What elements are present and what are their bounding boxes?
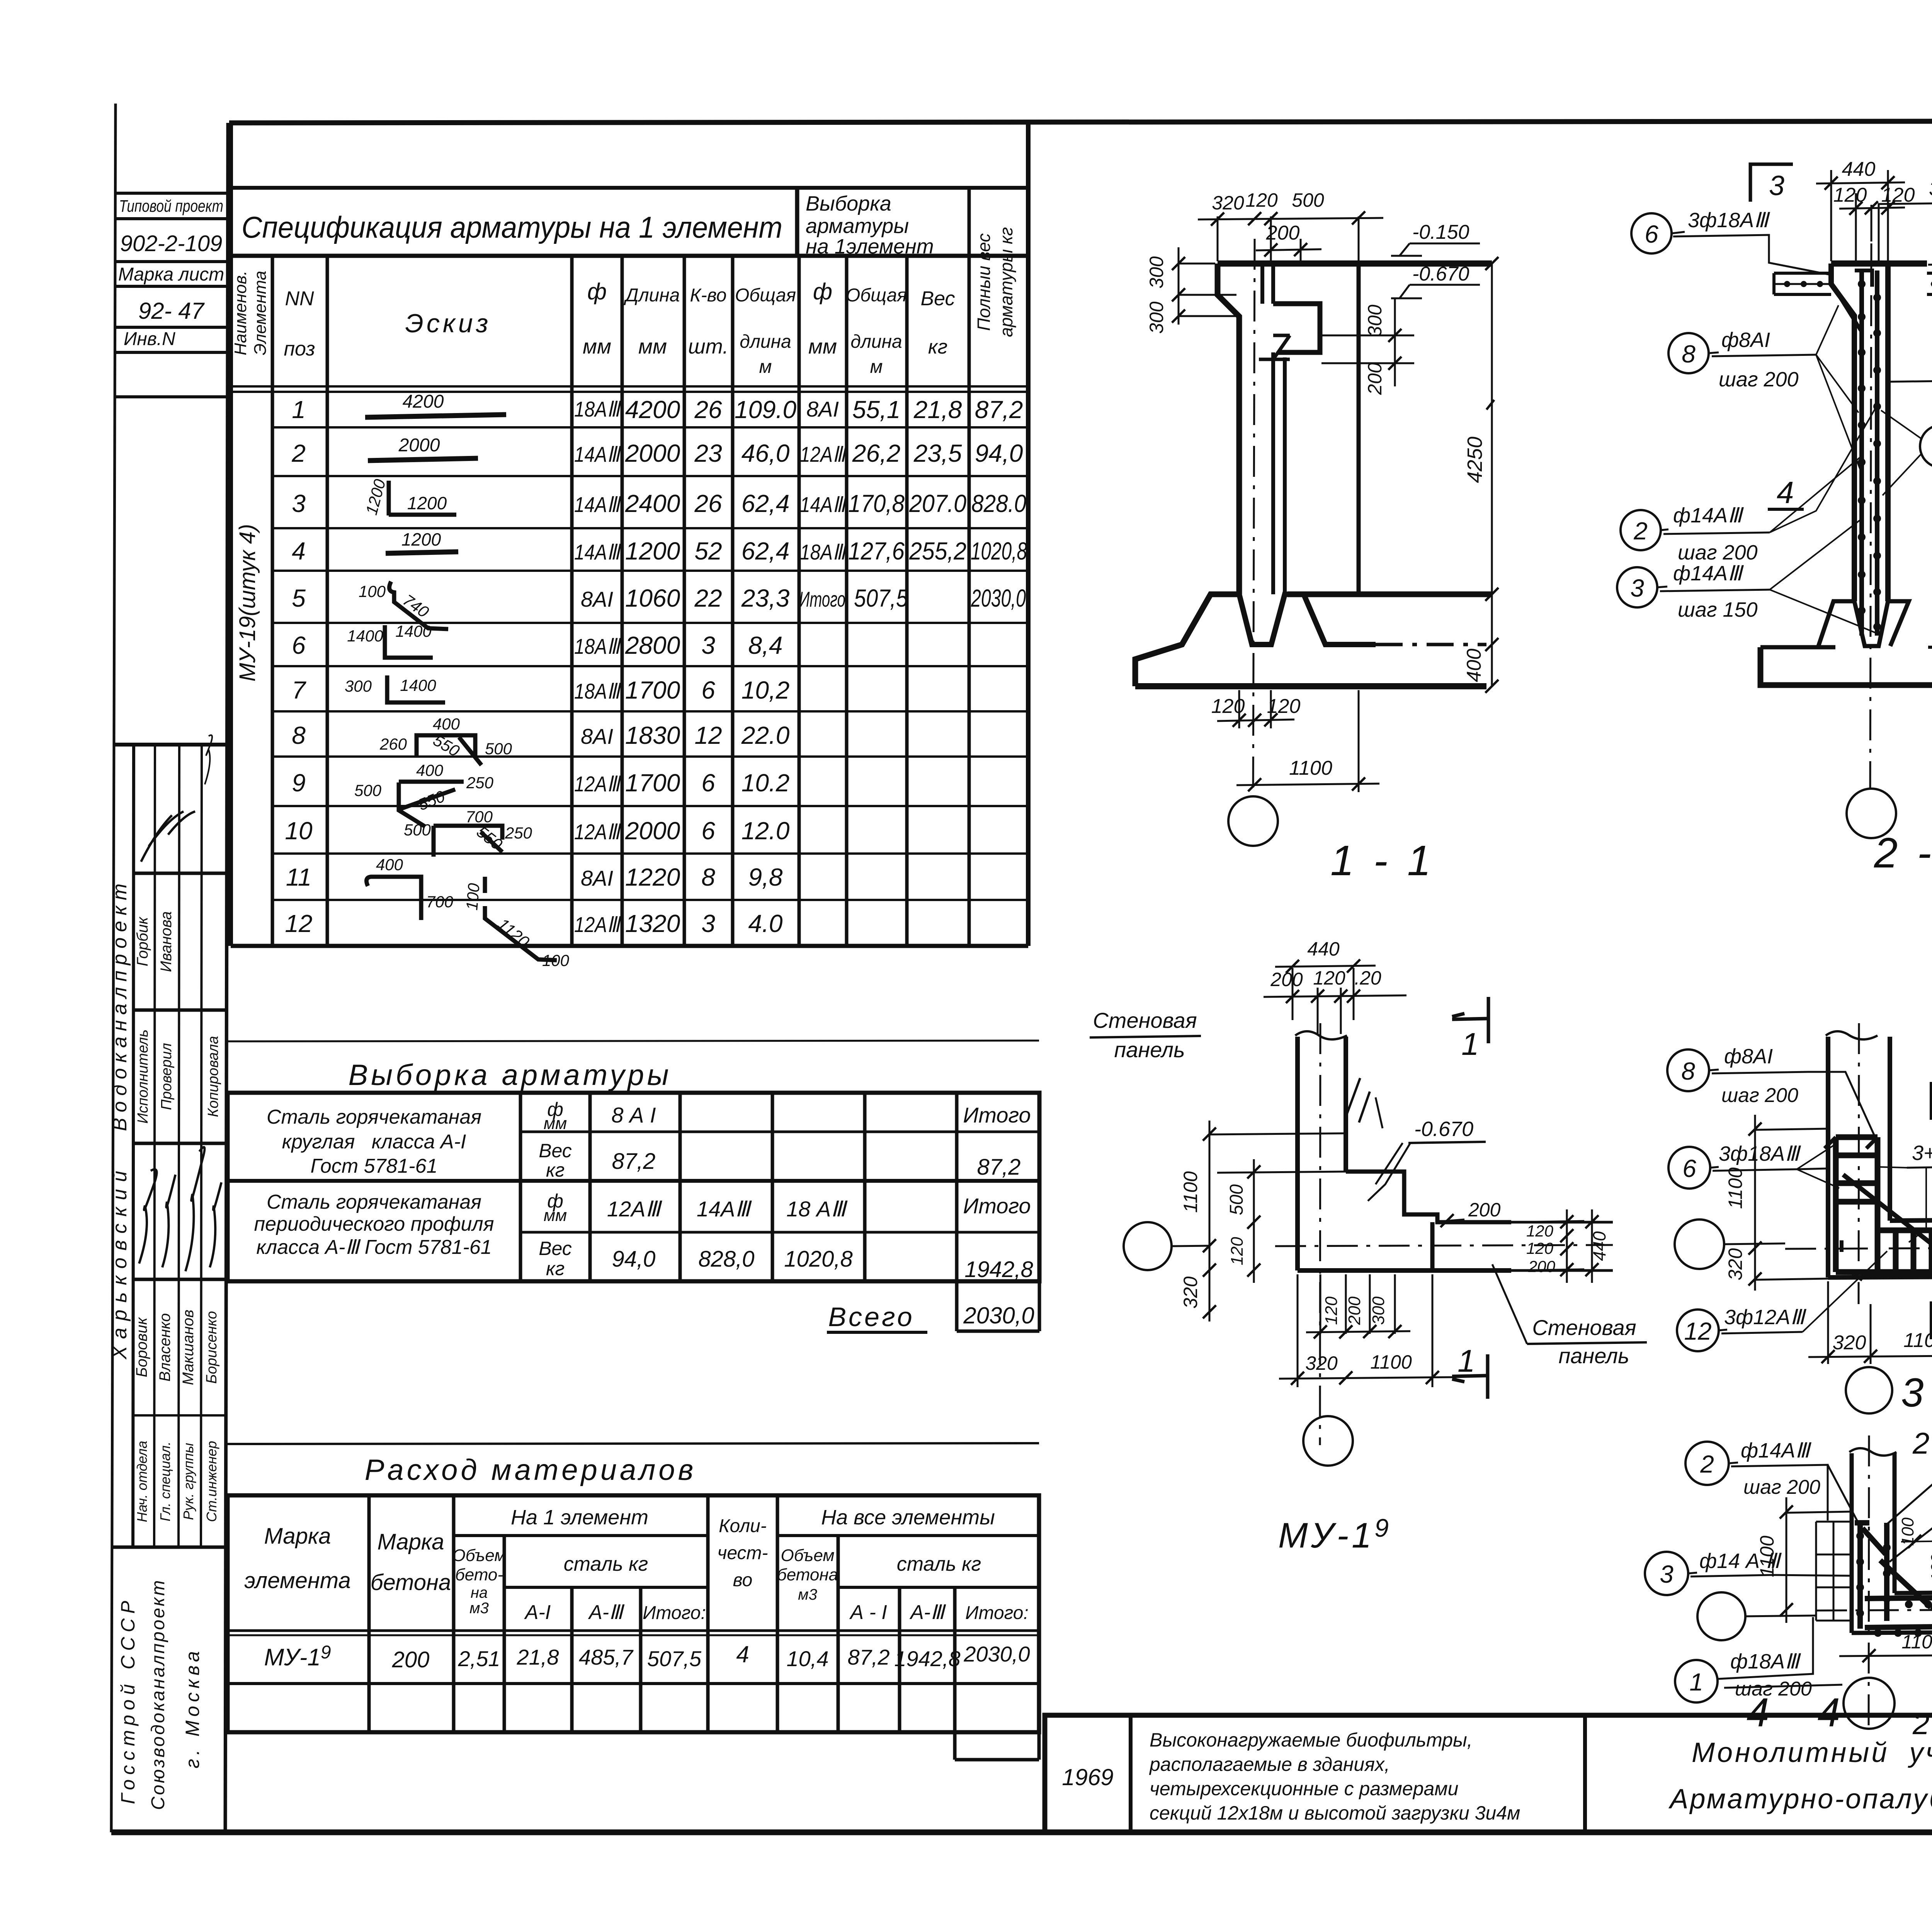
- svg-text:500: 500: [1226, 1184, 1247, 1215]
- svg-text:18АⅢ: 18АⅢ: [800, 540, 847, 564]
- svg-text:94,0: 94,0: [612, 1247, 656, 1272]
- svg-text:Союзводоканалпроект: Союзводоканалпроект: [148, 1579, 168, 1810]
- svg-text:.20: .20: [1354, 967, 1381, 989]
- svg-text:11: 11: [286, 863, 311, 891]
- svg-text:320: 320: [1725, 1248, 1746, 1281]
- svg-text:бето-: бето-: [455, 1565, 503, 1584]
- svg-text:6: 6: [701, 676, 715, 704]
- svg-text:Итого:: Итого:: [643, 1603, 706, 1623]
- svg-text:3ф18АⅢ: 3ф18АⅢ: [1719, 1142, 1801, 1165]
- svg-text:К-во: К-во: [690, 285, 727, 306]
- svg-text:500: 500: [354, 781, 382, 799]
- svg-text:8: 8: [292, 721, 306, 749]
- svg-text:14АⅢ: 14АⅢ: [574, 492, 622, 517]
- svg-text:бетона: бетона: [777, 1565, 838, 1584]
- callout 8: [1668, 333, 1709, 373]
- svg-text:3: 3: [292, 490, 306, 517]
- MU-19 bottom dims: [1279, 1274, 1457, 1387]
- callout 2: [1621, 510, 1661, 550]
- svg-text:Типовой проект: Типовой проект: [119, 197, 223, 216]
- svg-text:Объем: Объем: [452, 1546, 506, 1565]
- svg-text:6: 6: [1682, 1155, 1696, 1182]
- svg-text:мм: мм: [544, 1206, 567, 1225]
- svg-text:120: 120: [1245, 189, 1278, 211]
- section 3-3 outline: [1785, 1023, 1932, 1304]
- sketch column figures: [365, 415, 557, 960]
- svg-text:8АI: 8АI: [806, 397, 839, 421]
- svg-text:12АⅢ: 12АⅢ: [800, 442, 847, 466]
- 2-2 rebar bars: [1833, 270, 1877, 636]
- main frame top: [229, 121, 1932, 123]
- svg-text:6: 6: [701, 817, 715, 845]
- svg-text:902-2-109: 902-2-109: [120, 231, 222, 256]
- svg-text:Харьковский: Харьковский: [109, 1164, 131, 1360]
- svg-text:3: 3: [1660, 1560, 1673, 1588]
- svg-text:Монолитный участок МУ-19: Монолитный участок МУ-19: [1692, 1736, 1932, 1768]
- callout 6: [1668, 1147, 1710, 1189]
- MU-19 plan outline: [1275, 1023, 1613, 1445]
- svg-text:12: 12: [694, 721, 722, 749]
- svg-text:100: 100: [359, 582, 386, 600]
- svg-text:700: 700: [466, 808, 493, 826]
- svg-text:кг: кг: [546, 1159, 565, 1181]
- svg-text:Гост 5781-61: Гост 5781-61: [311, 1155, 438, 1177]
- svg-text:Водоканалпроект: Водоканалпроект: [109, 878, 131, 1131]
- svg-text:на 1элемент: на 1элемент: [806, 235, 934, 258]
- svg-text:120: 120: [1313, 967, 1345, 989]
- svg-text:-0.150: -0.150: [1412, 221, 1469, 243]
- svg-text:207.0: 207.0: [909, 490, 966, 517]
- MU-19 left dims: [1209, 1121, 1346, 1321]
- svg-text:м3: м3: [798, 1586, 817, 1603]
- 4-4 axis circle / label: [1844, 1678, 1895, 1729]
- svg-text:периодического профиля: периодического профиля: [254, 1213, 494, 1235]
- svg-text:14АⅢ: 14АⅢ: [574, 540, 622, 564]
- svg-text:62,4: 62,4: [742, 537, 790, 565]
- svg-text:длина: длина: [740, 332, 791, 352]
- svg-text:23: 23: [694, 439, 722, 467]
- svg-text:во: во: [733, 1570, 753, 1590]
- svg-text:поз: поз: [284, 338, 315, 360]
- svg-text:3ф12АⅢ: 3ф12АⅢ: [1724, 1306, 1806, 1329]
- svg-text:120: 120: [1322, 1296, 1341, 1325]
- svg-text:Общая: Общая: [735, 285, 796, 306]
- wall stem inner verticals: [1260, 264, 1264, 304]
- svg-text:Рук. группы: Рук. группы: [180, 1443, 196, 1520]
- svg-text:арматуры: арматуры: [806, 214, 909, 238]
- svg-text:г. Москва: г. Москва: [182, 1647, 203, 1768]
- svg-text:секций 12х18м и высотой загруз: секций 12х18м и высотой загрузки 3и4м: [1150, 1802, 1520, 1824]
- svg-text:шаг 200: шаг 200: [1721, 1084, 1798, 1107]
- svg-text:Наименов.: Наименов.: [231, 270, 250, 355]
- svg-text:200: 200: [1266, 222, 1300, 244]
- svg-text:-0.670: -0.670: [1412, 263, 1469, 285]
- svg-text:9: 9: [292, 769, 306, 797]
- svg-text:8,4: 8,4: [748, 631, 783, 659]
- svg-text:10,4: 10,4: [787, 1646, 829, 1671]
- svg-text:шаг 150: шаг 150: [1678, 598, 1758, 621]
- svg-text:1100: 1100: [1370, 1351, 1412, 1373]
- svg-text:1400: 1400: [347, 627, 383, 645]
- svg-text:Итого:: Итого:: [965, 1603, 1029, 1623]
- svg-text:Выборка арматуры: Выборка арматуры: [348, 1059, 672, 1092]
- svg-text:120: 120: [1211, 695, 1245, 718]
- svg-text:828.0: 828.0: [971, 490, 1026, 517]
- svg-text:255,2: 255,2: [909, 537, 966, 565]
- svg-text:14АⅢ: 14АⅢ: [574, 442, 622, 466]
- svg-text:Власенко: Власенко: [156, 1313, 173, 1382]
- svg-text:Выборка: Выборка: [806, 192, 891, 215]
- svg-text:2030,0: 2030,0: [971, 584, 1026, 612]
- svg-text:200: 200: [392, 1647, 430, 1672]
- svg-text:1942,8: 1942,8: [894, 1646, 960, 1671]
- svg-text:440: 440: [1589, 1231, 1609, 1261]
- svg-text:2 - 2: 2 - 2: [1874, 829, 1932, 877]
- spec table data: [285, 396, 1027, 937]
- svg-text:4: 4: [1777, 475, 1794, 510]
- MU-19 top dims: [1264, 966, 1406, 1034]
- svg-text:Горбик: Горбик: [134, 916, 151, 966]
- svg-text:располагаемые в зданиях,: располагаемые в зданиях,: [1149, 1753, 1390, 1775]
- svg-text:4200: 4200: [625, 396, 680, 423]
- 1-1 bottom dims: [1217, 690, 1379, 792]
- svg-text:250: 250: [466, 774, 494, 792]
- MU-19 bottom axis circle: [1303, 1416, 1353, 1466]
- svg-text:Вес: Вес: [539, 1238, 572, 1259]
- small 100 dims: [1901, 1519, 1932, 1575]
- svg-text:1220: 1220: [625, 863, 680, 891]
- svg-text:1: 1: [1689, 1668, 1703, 1696]
- svg-text:2: 2: [1633, 517, 1648, 545]
- svg-text:12АⅢ: 12АⅢ: [574, 912, 622, 937]
- svg-text:4.0: 4.0: [748, 910, 783, 937]
- svg-text:1100: 1100: [1180, 1171, 1201, 1213]
- svg-text:Копировала: Копировала: [205, 1036, 221, 1117]
- svg-text:мм: мм: [583, 335, 611, 358]
- svg-text:500: 500: [485, 740, 512, 758]
- svg-text:14АⅢ: 14АⅢ: [800, 492, 847, 517]
- svg-text:круглая класса А-I: круглая класса А-I: [282, 1131, 466, 1153]
- svg-text:200: 200: [1364, 362, 1386, 395]
- svg-text:62,4: 62,4: [742, 490, 790, 517]
- svg-text:Гл. специал.: Гл. специал.: [157, 1442, 173, 1522]
- svg-text:507,5: 507,5: [854, 584, 908, 612]
- svg-text:1700: 1700: [625, 676, 680, 704]
- svg-text:Итого: Итого: [799, 587, 845, 611]
- svg-text:300: 300: [1364, 304, 1386, 337]
- svg-text:ф14АⅢ: ф14АⅢ: [1673, 562, 1744, 585]
- svg-text:9,8: 9,8: [748, 863, 783, 891]
- svg-text:2400: 2400: [625, 490, 680, 517]
- svg-text:Итого: Итого: [963, 1194, 1031, 1218]
- svg-text:12АⅢ: 12АⅢ: [607, 1197, 663, 1221]
- svg-text:мм: мм: [638, 335, 667, 358]
- svg-text:300: 300: [345, 677, 372, 695]
- svg-text:ф14АⅢ: ф14АⅢ: [1741, 1439, 1811, 1462]
- svg-text:1969: 1969: [1062, 1764, 1113, 1790]
- svg-text:4 - 4: 4 - 4: [1747, 1690, 1843, 1735]
- svg-text:120: 120: [1833, 184, 1867, 206]
- svg-text:Боровик: Боровик: [133, 1317, 150, 1378]
- svg-text:100: 100: [542, 951, 570, 969]
- svg-text:1100: 1100: [1289, 757, 1332, 779]
- svg-text:1100: 1100: [1903, 1329, 1932, 1352]
- svg-text:1100: 1100: [1725, 1167, 1746, 1209]
- svg-text:18 АⅢ: 18 АⅢ: [786, 1197, 848, 1221]
- svg-text:87,2: 87,2: [975, 396, 1023, 423]
- svg-text:23,5: 23,5: [913, 439, 962, 467]
- 2-2 top dims 440/120/120: [1816, 170, 1905, 261]
- callout 6: [1631, 213, 1672, 253]
- svg-text:8: 8: [1682, 340, 1696, 368]
- svg-text:Полныи вес: Полныи вес: [974, 233, 994, 331]
- 3-3 left dims: [1755, 1115, 1828, 1291]
- stray pencil squiggle: [205, 735, 212, 785]
- floor level line: [1287, 592, 1492, 597]
- svg-text:300: 300: [1146, 301, 1167, 334]
- svg-text:8: 8: [701, 863, 715, 891]
- svg-text:8: 8: [1681, 1057, 1695, 1085]
- svg-text:Элемента: Элемента: [251, 271, 270, 355]
- blank circle: [1697, 1592, 1745, 1640]
- svg-text:87,2: 87,2: [612, 1149, 656, 1174]
- svg-text:сталь кг: сталь кг: [897, 1553, 981, 1575]
- svg-text:14АⅢ: 14АⅢ: [697, 1197, 752, 1221]
- svg-text:Ст.инженер: Ст.инженер: [204, 1441, 219, 1522]
- svg-text:Объем: Объем: [781, 1546, 835, 1565]
- svg-text:2000: 2000: [625, 439, 680, 467]
- svg-text:440: 440: [1307, 938, 1340, 960]
- 3-3 axis circle / label: [1846, 1367, 1892, 1413]
- svg-text:400: 400: [416, 761, 444, 779]
- svg-text:26,2: 26,2: [852, 439, 901, 467]
- svg-text:6: 6: [292, 631, 306, 659]
- callout 12: [1677, 1310, 1719, 1351]
- svg-text:Марка лист: Марка лист: [118, 264, 224, 285]
- svg-text:четырехсекционные с размерами: четырехсекционные с размерами: [1150, 1778, 1458, 1799]
- callout 1 bottom-left: [1675, 1660, 1718, 1702]
- svg-text:1942,8: 1942,8: [964, 1257, 1033, 1282]
- section 2-2 wall outline: [1760, 243, 1932, 788]
- svg-text:22: 22: [694, 584, 722, 612]
- 1-1 elevation marks: [1391, 243, 1480, 298]
- svg-text:Вес: Вес: [920, 287, 955, 310]
- svg-text:Расход материалов: Расход материалов: [365, 1454, 697, 1486]
- svg-text:10.2: 10.2: [742, 769, 790, 797]
- svg-text:46,0: 46,0: [742, 439, 790, 467]
- svg-text:300: 300: [1369, 1296, 1388, 1325]
- svg-text:Спецификация арматуры на 1 эле: Спецификация арматуры на 1 элемент: [241, 210, 782, 244]
- svg-text:300: 300: [1146, 256, 1167, 289]
- svg-text:400: 400: [433, 715, 460, 733]
- svg-text:87,2: 87,2: [977, 1155, 1021, 1180]
- svg-text:21,8: 21,8: [913, 396, 962, 423]
- svg-text:1: 1: [1461, 1027, 1479, 1062]
- svg-text:1830: 1830: [625, 721, 680, 749]
- section 4-4 outline: [1816, 1435, 1932, 1731]
- svg-text:Длина: Длина: [624, 285, 680, 306]
- svg-text:А-I: А-I: [524, 1601, 551, 1624]
- svg-text:2,51: 2,51: [458, 1646, 500, 1671]
- svg-text:3: 3: [1769, 170, 1784, 201]
- svg-text:3ф18АⅢ: 3ф18АⅢ: [1688, 209, 1770, 232]
- 3-3 cut marks 2: [1930, 1082, 1932, 1120]
- svg-text:Стеновая: Стеновая: [1532, 1315, 1636, 1340]
- svg-text:200: 200: [1345, 1296, 1364, 1325]
- callout 3: [1617, 567, 1657, 607]
- svg-text:100: 100: [1898, 1517, 1917, 1546]
- 4-4 left dim 1100: [1786, 1497, 1852, 1623]
- svg-text:Арматурно-опалубочный чертёж: Арматурно-опалубочный чертёж: [1668, 1784, 1932, 1815]
- svg-text:485,7: 485,7: [579, 1645, 634, 1669]
- svg-text:шт.: шт.: [688, 335, 728, 358]
- svg-text:кг: кг: [546, 1258, 565, 1279]
- adjacent panel grid: [1816, 1522, 1852, 1621]
- svg-text:1400: 1400: [400, 676, 436, 694]
- blank circle left: [1675, 1219, 1724, 1269]
- svg-text:А-Ⅲ: А-Ⅲ: [588, 1601, 625, 1624]
- svg-text:2030,0: 2030,0: [963, 1303, 1034, 1328]
- svg-text:на: на: [471, 1584, 488, 1601]
- svg-text:1 - 1: 1 - 1: [1330, 837, 1435, 884]
- svg-text:1320: 1320: [625, 910, 680, 937]
- svg-text:Иванова: Иванова: [158, 911, 175, 972]
- svg-text:2000: 2000: [398, 435, 440, 456]
- svg-text:Сталь горячекатаная: Сталь горячекатаная: [267, 1106, 481, 1128]
- svg-text:шаг 200: шаг 200: [1719, 368, 1799, 391]
- svg-text:Проверил: Проверил: [158, 1043, 175, 1110]
- svg-text:12АⅢ: 12АⅢ: [574, 772, 622, 796]
- sketch dimension labels: [345, 391, 570, 969]
- svg-text:18АⅢ: 18АⅢ: [574, 397, 622, 421]
- svg-text:Стеновая: Стеновая: [1093, 1008, 1197, 1032]
- svg-text:320: 320: [1305, 1352, 1338, 1374]
- svg-text:Коли-: Коли-: [719, 1516, 767, 1536]
- svg-text:6: 6: [1645, 220, 1658, 248]
- svg-text:ф: ф: [813, 279, 832, 304]
- svg-text:250: 250: [505, 824, 532, 842]
- svg-text:4250: 4250: [1463, 437, 1486, 483]
- axis center line: [1253, 239, 1255, 795]
- svg-text:3 - 3: 3 - 3: [1901, 1370, 1932, 1415]
- signature squiggles: [139, 811, 221, 1271]
- svg-text:400: 400: [1463, 649, 1485, 682]
- svg-text:Макшанов: Макшанов: [180, 1310, 197, 1385]
- svg-text:1700: 1700: [625, 769, 680, 797]
- svg-text:87,2: 87,2: [848, 1645, 890, 1669]
- svg-text:120: 120: [1526, 1222, 1554, 1240]
- svg-text:1060: 1060: [625, 584, 680, 612]
- svg-text:кг: кг: [928, 336, 947, 358]
- svg-text:ф14АⅢ: ф14АⅢ: [1673, 504, 1744, 527]
- svg-text:На 1 элемент: На 1 элемент: [511, 1506, 648, 1529]
- svg-text:120: 120: [1228, 1237, 1247, 1265]
- section mark 1 top: [1452, 997, 1488, 1043]
- 2-2 axis circle and label: [1847, 789, 1896, 838]
- svg-text:10: 10: [285, 817, 313, 845]
- svg-text:3: 3: [701, 910, 715, 937]
- svg-text:Общая: Общая: [846, 285, 907, 306]
- section 1-1 wall outline: [1135, 239, 1492, 795]
- svg-text:12: 12: [1684, 1317, 1711, 1345]
- svg-text:4: 4: [736, 1641, 749, 1667]
- svg-text:21,8: 21,8: [517, 1645, 559, 1669]
- svg-text:Всего: Всего: [828, 1302, 914, 1332]
- svg-text:мм: мм: [808, 335, 837, 358]
- svg-text:3: 3: [701, 631, 715, 659]
- svg-text:2: 2: [1700, 1450, 1714, 1478]
- svg-text:5: 5: [292, 584, 306, 612]
- svg-text:1100: 1100: [1756, 1536, 1778, 1577]
- svg-text:170,8: 170,8: [848, 490, 905, 517]
- svg-text:Итого: Итого: [963, 1103, 1031, 1127]
- 4-4 rebar cage: [1855, 1523, 1932, 1629]
- callout 2 top-left: [1685, 1442, 1729, 1485]
- svg-text:ф8АI: ф8АI: [1724, 1045, 1773, 1068]
- 1-1 right dim 4250 / 400: [1486, 264, 1494, 686]
- svg-text:3: 3: [1630, 574, 1644, 602]
- svg-text:NN: NN: [285, 287, 314, 310]
- 3-3 bottom dims: [1808, 1280, 1932, 1364]
- svg-text:94,0: 94,0: [975, 439, 1023, 467]
- svg-text:А-Ⅲ: А-Ⅲ: [909, 1601, 946, 1624]
- svg-text:10,2: 10,2: [742, 676, 790, 704]
- svg-text:2: 2: [291, 439, 306, 467]
- svg-text:Высоконагружаемые биофильтры,: Высоконагружаемые биофильтры,: [1150, 1729, 1473, 1751]
- svg-text:бетона: бетона: [371, 1570, 451, 1595]
- svg-text:Борисенко: Борисенко: [204, 1311, 220, 1384]
- MU-19 right stacked dims: [1514, 1209, 1592, 1283]
- svg-text:120: 120: [1267, 695, 1301, 718]
- svg-text:507,5: 507,5: [647, 1646, 702, 1671]
- svg-text:7: 7: [292, 676, 306, 704]
- svg-text:55,1: 55,1: [852, 396, 901, 423]
- svg-text:чест-: чест-: [718, 1543, 768, 1563]
- svg-text:1020,8: 1020,8: [971, 537, 1027, 565]
- svg-text:2030,0: 2030,0: [963, 1642, 1030, 1666]
- svg-text:828,0: 828,0: [698, 1247, 754, 1272]
- svg-text:класса А-Ⅲ Гост 5781-61: класса А-Ⅲ Гост 5781-61: [256, 1236, 492, 1259]
- svg-text:А - I: А - I: [849, 1601, 887, 1624]
- 1-1 top dimensions: [1198, 216, 1383, 261]
- svg-text:1100: 1100: [1901, 1631, 1932, 1653]
- svg-text:400: 400: [376, 855, 403, 874]
- 1-1 corbel dims 300/200: [1321, 298, 1414, 386]
- svg-text:1200: 1200: [401, 529, 441, 549]
- svg-text:1400: 1400: [395, 622, 432, 640]
- vyborka armatury table: [228, 1041, 1039, 1041]
- 2-2 section cut marks 3-3: [1750, 164, 1793, 202]
- svg-text:1200: 1200: [407, 493, 447, 513]
- svg-text:панель: панель: [1114, 1037, 1185, 1062]
- svg-text:1020,8: 1020,8: [784, 1247, 852, 1272]
- left title strip: [113, 123, 228, 1832]
- svg-text:Госстрой СССР: Госстрой СССР: [117, 1596, 139, 1804]
- svg-text:шаг 200: шаг 200: [1743, 1476, 1820, 1498]
- 1-1 left dims 300/300: [1179, 247, 1236, 325]
- svg-text:ф: ф: [587, 279, 607, 304]
- svg-text:8АI: 8АI: [581, 724, 613, 748]
- svg-text:Инв.N: Инв.N: [124, 329, 175, 349]
- 1-1 axis circle: [1228, 796, 1278, 846]
- section mark 1 bottom: [1452, 1354, 1488, 1399]
- svg-text:8АI: 8АI: [581, 866, 613, 890]
- corbel 1-1: [1273, 304, 1320, 352]
- svg-text:3ф18АⅢ: 3ф18АⅢ: [1929, 177, 1932, 200]
- svg-text:2: 2: [1912, 1707, 1929, 1741]
- svg-text:Эскиз: Эскиз: [405, 309, 492, 338]
- svg-text:-0.670: -0.670: [1414, 1117, 1473, 1141]
